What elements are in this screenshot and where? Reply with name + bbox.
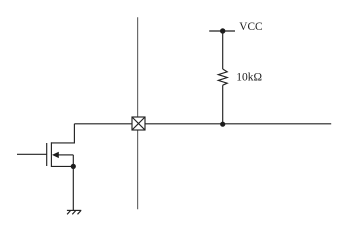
svg-text:VCC: VCC [239,21,262,33]
node VCC (terminal dot) [220,28,225,33]
wire: source to ground [72,166,74,210]
wire: resistor to net [222,85,224,124]
ground [67,210,81,214]
wire: horizontal net (drain corner to right edge) [74,123,331,125]
wire: vertical net (top to bottom through crossbox) [137,17,139,209]
junction: source/bulk tie [71,164,76,169]
wire: VCC to resistor [222,31,224,69]
wire: gate lead [17,153,47,155]
VCC terminal tick [209,30,235,32]
transistor Q1 (NMOS, source-bulk tied) [47,124,75,167]
svg-text:10kΩ: 10kΩ [236,72,262,84]
resistor R1 (10k pull-up) [218,69,227,85]
crossbox (wire crossing symbol) [132,117,145,130]
junction: resistor to horizontal net [220,122,225,127]
